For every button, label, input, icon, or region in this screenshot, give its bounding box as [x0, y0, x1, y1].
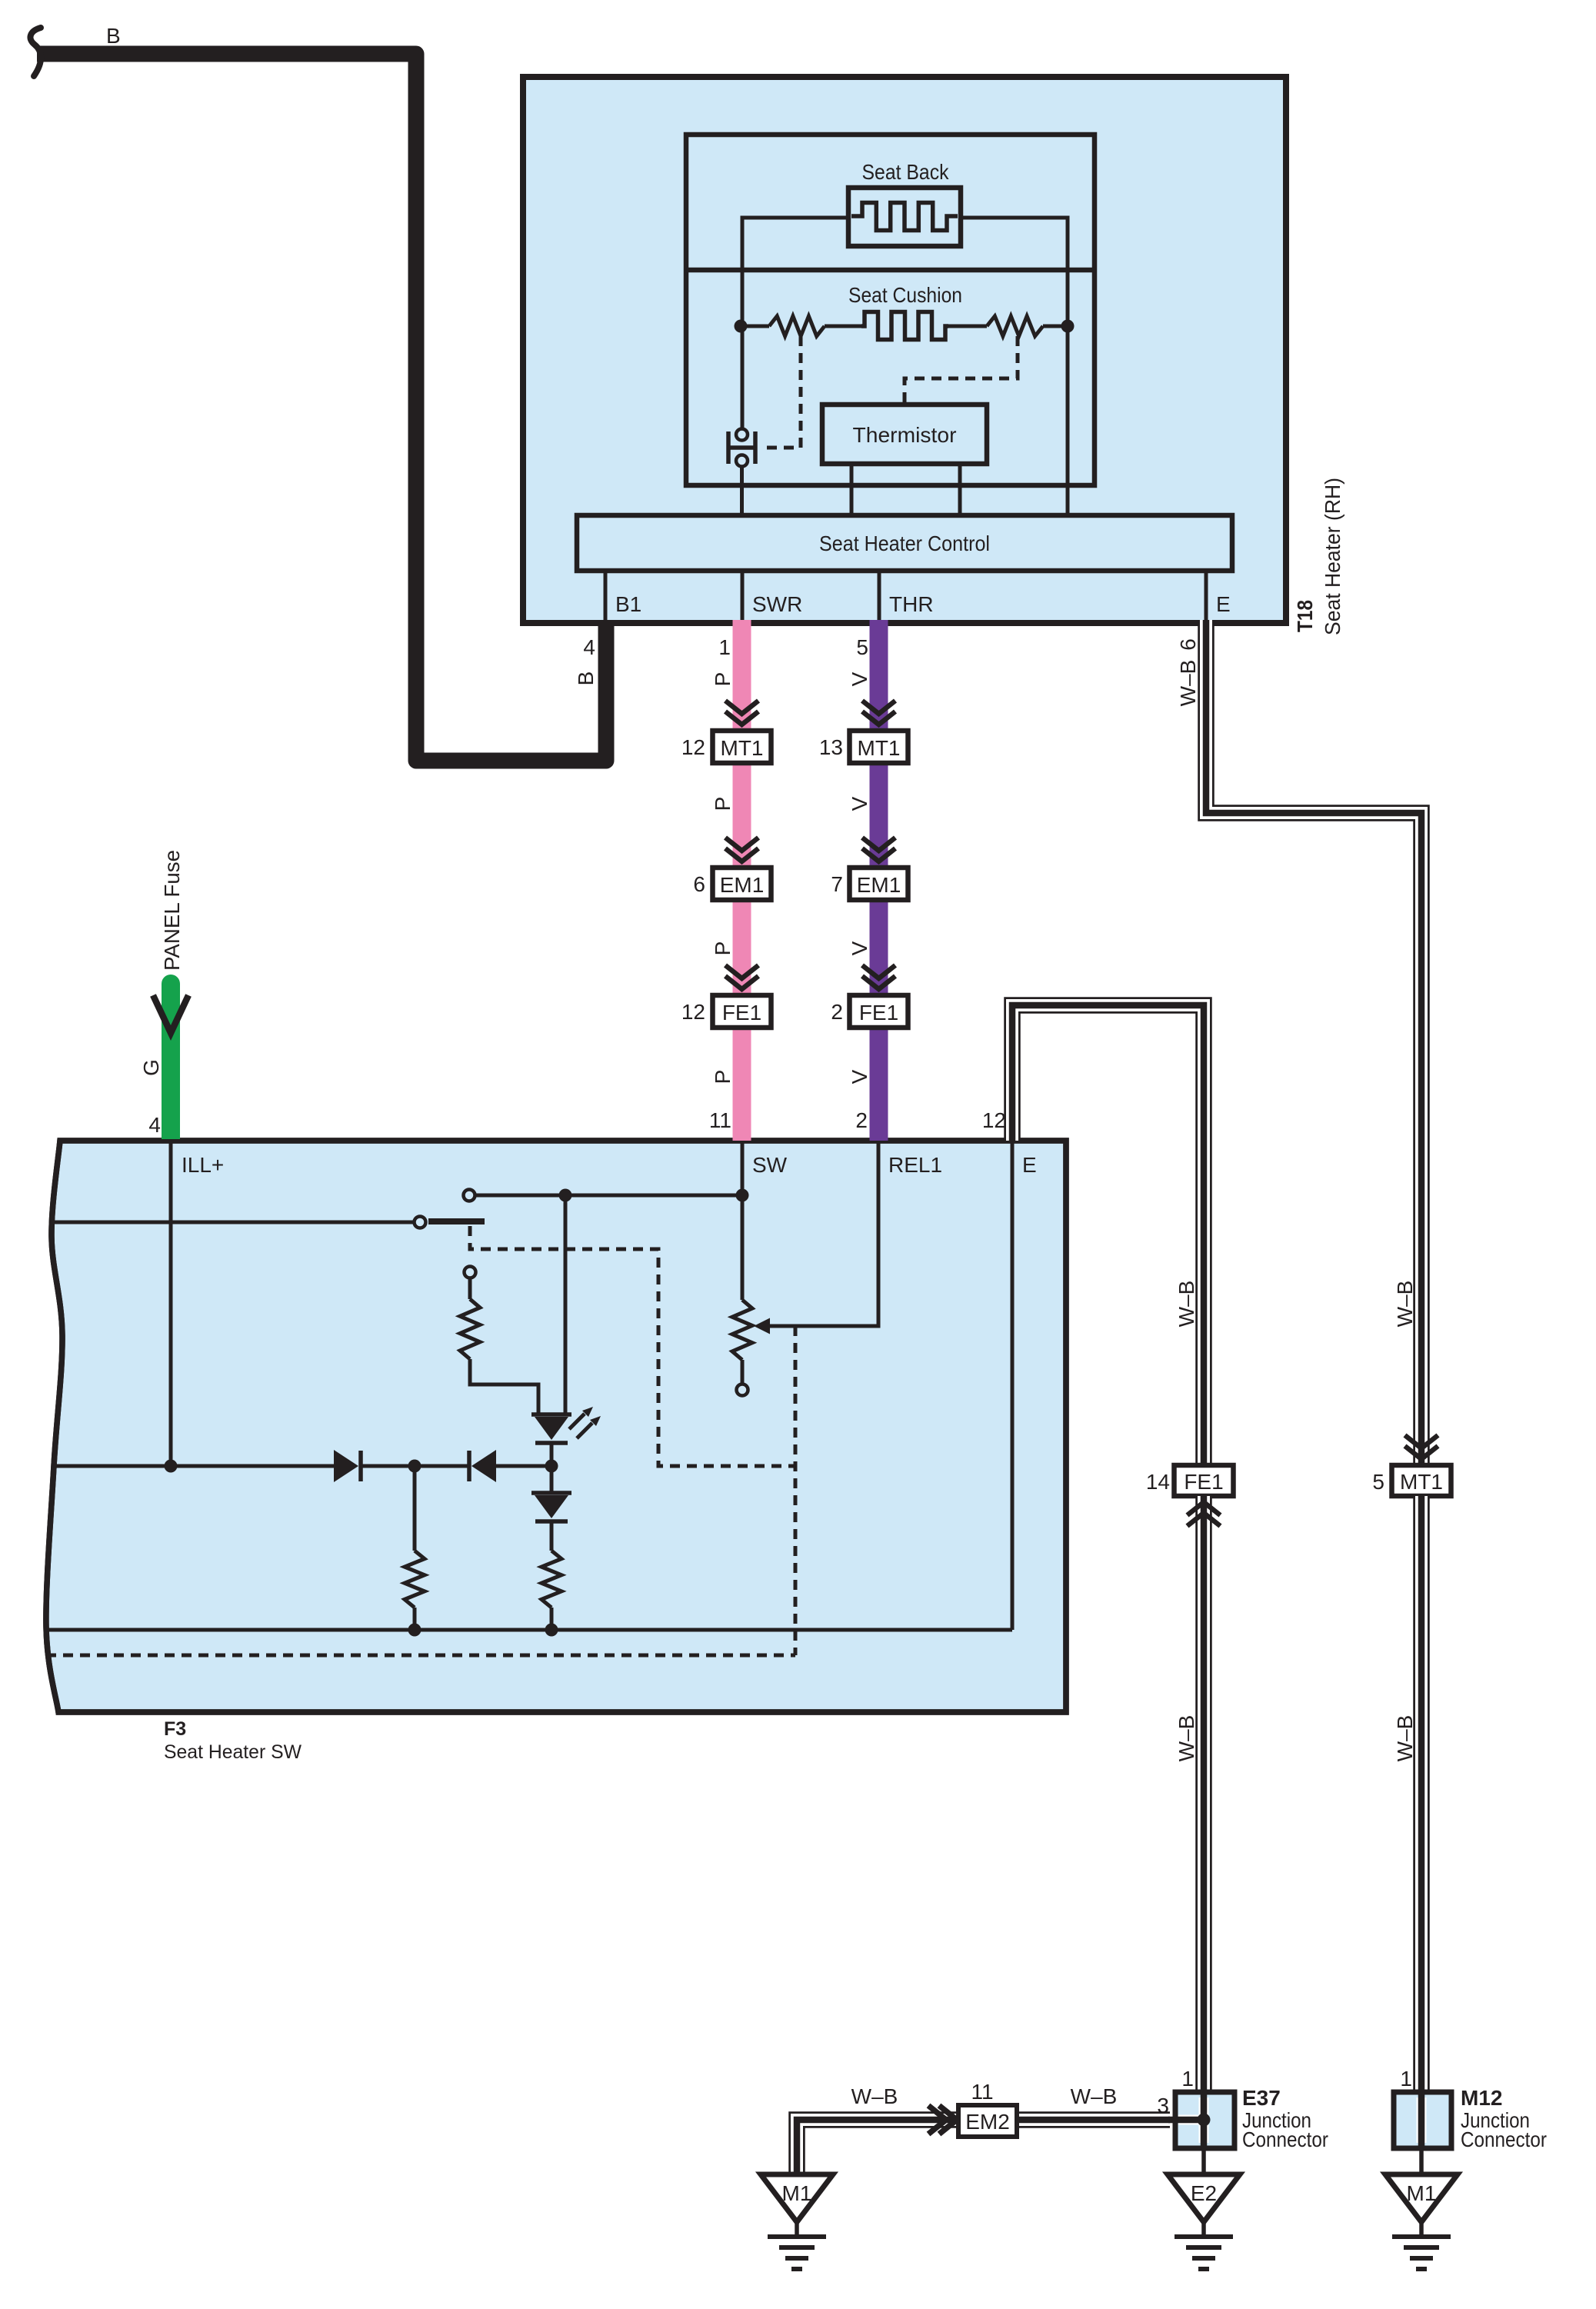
svg-text:4: 4 [148, 1113, 161, 1137]
wire W-B from T18 pin 6 [1206, 620, 1421, 1465]
wire W-B below FE1 [1195, 1496, 1212, 2090]
svg-text:Seat Heater SW: Seat Heater SW [164, 1741, 302, 1763]
LED D4 [531, 1493, 571, 1521]
wire G green panel fuse [162, 975, 180, 993]
svg-text:12: 12 [681, 1000, 705, 1024]
arrow into 14 FE1 [1188, 1502, 1221, 1515]
svg-text:M1: M1 [782, 2181, 812, 2205]
svg-text:M1: M1 [1407, 2181, 1437, 2205]
ECU T18 Seat Heater (RH) box [523, 77, 1286, 623]
wire ILL+ vertical [169, 1141, 173, 1466]
svg-text:E: E [1216, 592, 1231, 616]
connector 6 EM1 [693, 868, 771, 900]
svg-text:V: V [848, 671, 871, 686]
wire line A [475, 1194, 742, 1198]
wire E37 to ground [1201, 2148, 1206, 2174]
svg-text:G: G [139, 1059, 163, 1076]
svg-text:W–B: W–B [1176, 660, 1200, 707]
svg-text:Thermistor: Thermistor [853, 423, 957, 447]
svg-text:1: 1 [1400, 2067, 1412, 2091]
wire seat back left [742, 218, 848, 429]
arrow on green wire [153, 995, 188, 1033]
svg-text:W–B: W–B [1393, 1281, 1417, 1328]
connector 12 FE1 [681, 995, 771, 1028]
svg-text:14: 14 [1146, 1470, 1170, 1494]
svg-text:Seat Heater (RH): Seat Heater (RH) [1321, 478, 1344, 635]
wire LED1 to node [550, 1443, 554, 1493]
wire through E37 [1199, 2097, 1209, 2143]
node R2 top [408, 1460, 421, 1473]
wire SWR pink [733, 620, 751, 1141]
switch in T18 [728, 429, 755, 467]
svg-text:4: 4 [583, 635, 595, 659]
terminal circle line A [464, 1190, 475, 1201]
resistor R3 [541, 1521, 561, 1630]
junction connector M12 [1394, 2092, 1451, 2148]
svg-text:W–B: W–B [1175, 1281, 1198, 1328]
arrow into 13 MT1 [862, 701, 895, 714]
dashed switch linkage [470, 1226, 795, 1466]
svg-text:W–B: W–B [851, 2084, 898, 2108]
wire through M12 [1417, 2097, 1427, 2143]
connector 14 FE1 [1146, 1465, 1234, 1496]
wire W-B ground run [797, 2120, 1170, 2174]
wire line D [46, 1628, 1012, 1632]
pin stub SWR [741, 571, 745, 620]
wire line C [52, 1464, 334, 1468]
svg-text:11: 11 [709, 1108, 731, 1132]
wire switch to control [740, 467, 744, 519]
node R3 bottom [545, 1624, 558, 1637]
diode D2 [469, 1450, 496, 1482]
svg-text:EM1: EM1 [857, 873, 901, 897]
svg-text:P: P [711, 672, 735, 687]
svg-text:FE1: FE1 [1184, 1470, 1223, 1494]
svg-text:MT1: MT1 [721, 736, 764, 760]
svg-text:6: 6 [693, 872, 705, 896]
terminal circle line B [415, 1217, 426, 1228]
arrow into 5 MT1 [1405, 1446, 1438, 1459]
resistor R2 [405, 1466, 425, 1630]
switch F3 Seat Heater SW box [46, 1141, 1066, 1712]
switch bar F3 [428, 1218, 485, 1224]
dashed link resistor to thermistor [905, 336, 1018, 402]
svg-text:6: 6 [1176, 638, 1200, 651]
svg-text:V: V [848, 796, 871, 811]
arrow into 12 MT1 [725, 701, 758, 714]
svg-text:W–B: W–B [1071, 2084, 1118, 2108]
wire REL1 vertical wiper [768, 1141, 878, 1326]
svg-text:EM2: EM2 [965, 2110, 1010, 2134]
svg-text:13: 13 [819, 735, 843, 759]
F3 border re-stroke [46, 1141, 1066, 1712]
node diode line LED [545, 1460, 558, 1473]
node cushion left [735, 320, 748, 333]
resistor cushion right [987, 316, 1043, 336]
thermistor box [822, 405, 987, 464]
svg-text:Connector: Connector [1461, 2127, 1547, 2151]
svg-text:E2: E2 [1191, 2181, 1217, 2205]
wire seat cushion line [741, 325, 769, 328]
connector 11 EM2 [958, 2080, 1017, 2137]
dashed bottom line [46, 1654, 795, 1658]
wire THR violet [870, 620, 888, 1141]
thermistor legs [850, 464, 854, 518]
svg-text:W–B: W–B [1175, 1715, 1198, 1762]
node line A SW [736, 1189, 749, 1202]
svg-text:SWR: SWR [752, 592, 802, 616]
wire W-B from F3 pin 12 [1012, 1005, 1204, 1465]
svg-text:P: P [711, 797, 735, 811]
wire line B [49, 1221, 414, 1224]
svg-text:M12: M12 [1461, 2086, 1502, 2110]
wire W-B below MT1 [1413, 1496, 1430, 2090]
junction connector E37 [1175, 2092, 1234, 2148]
svg-text:T18: T18 [1293, 600, 1317, 632]
resistor cushion left [769, 316, 825, 336]
arrow into 6 EM1 [725, 838, 758, 851]
svg-text:5: 5 [1372, 1470, 1384, 1494]
node line A LED drop [559, 1189, 572, 1202]
node cushion right [1061, 320, 1075, 333]
svg-text:1: 1 [718, 635, 731, 659]
svg-text:1: 1 [1181, 2067, 1194, 2091]
node R2 bottom [408, 1624, 421, 1637]
svg-text:FE1: FE1 [722, 1001, 761, 1025]
potentiometer SW [732, 1300, 770, 1396]
svg-text:2: 2 [855, 1108, 868, 1132]
ground M1 [761, 2174, 833, 2269]
LED D3 [531, 1407, 601, 1443]
svg-text:P: P [711, 941, 735, 956]
resistor R1 [460, 1267, 538, 1414]
svg-text:E37: E37 [1242, 2086, 1281, 2110]
connector 2 FE1 [831, 995, 908, 1028]
svg-text:Seat Heater Control: Seat Heater Control [819, 531, 990, 555]
svg-text:V: V [848, 941, 871, 955]
connector 7 EM1 [831, 868, 908, 900]
svg-text:Seat Back: Seat Back [862, 160, 950, 184]
wire seat back right [961, 218, 1068, 518]
wire LED feed [564, 1195, 568, 1414]
svg-text:W–B: W–B [1393, 1715, 1417, 1762]
ground E2 [1168, 2174, 1240, 2269]
svg-text:B: B [106, 24, 121, 48]
svg-text:Seat Cushion: Seat Cushion [848, 283, 962, 307]
svg-text:SW: SW [752, 1153, 788, 1177]
svg-text:12: 12 [982, 1108, 1006, 1132]
pin stub THR [878, 571, 881, 620]
svg-text:PANEL Fuse: PANEL Fuse [160, 850, 184, 971]
connector 5 MT1 [1372, 1465, 1451, 1496]
svg-text:REL1: REL1 [888, 1153, 942, 1177]
heater element seat back [848, 188, 961, 246]
ground M1 [1385, 2174, 1458, 2269]
svg-text:5: 5 [856, 635, 868, 659]
connector 13 MT1 [819, 731, 908, 763]
svg-text:2: 2 [831, 1000, 843, 1024]
svg-text:11: 11 [971, 2080, 993, 2104]
svg-text:V: V [848, 1069, 871, 1084]
dashed link resistor to switch [761, 336, 801, 448]
arrow into 7 EM1 [862, 838, 895, 851]
svg-text:F3: F3 [164, 1718, 186, 1740]
wire E vertical F3 [1011, 1141, 1015, 1630]
continuation squiggle [30, 28, 41, 76]
wire SW vertical [741, 1141, 745, 1300]
pin stub E [1204, 571, 1208, 620]
svg-text:ILL+: ILL+ [182, 1153, 224, 1177]
arrow into 12 FE1 [725, 965, 758, 978]
svg-text:THR: THR [889, 592, 934, 616]
arrow into 2 FE1 [862, 965, 895, 978]
node ILL+ line C [165, 1460, 178, 1473]
seat heater control bar [577, 515, 1232, 571]
svg-text:MT1: MT1 [858, 736, 901, 760]
heater element seat cushion [861, 312, 948, 340]
svg-text:B: B [574, 671, 598, 686]
inner heater assembly box [686, 135, 1095, 485]
wire B thick battery [37, 54, 606, 761]
svg-text:P: P [711, 1070, 735, 1085]
dashed wiper vertical [794, 1326, 798, 1655]
divider line [686, 268, 1095, 273]
svg-text:3: 3 [1157, 2094, 1169, 2117]
diode D1 [334, 1450, 361, 1482]
svg-text:MT1: MT1 [1400, 1470, 1443, 1494]
svg-text:12: 12 [681, 735, 705, 759]
arrow into 11 EM2 [928, 2106, 946, 2134]
wire M12 to ground [1419, 2148, 1424, 2174]
svg-text:EM1: EM1 [720, 873, 765, 897]
svg-text:FE1: FE1 [859, 1001, 898, 1025]
svg-text:Connector: Connector [1242, 2127, 1328, 2151]
connector 12 MT1 [681, 731, 771, 763]
svg-text:7: 7 [831, 872, 843, 896]
svg-text:E: E [1022, 1153, 1037, 1177]
pin stub B1 [604, 571, 608, 620]
svg-text:B1: B1 [615, 592, 641, 616]
